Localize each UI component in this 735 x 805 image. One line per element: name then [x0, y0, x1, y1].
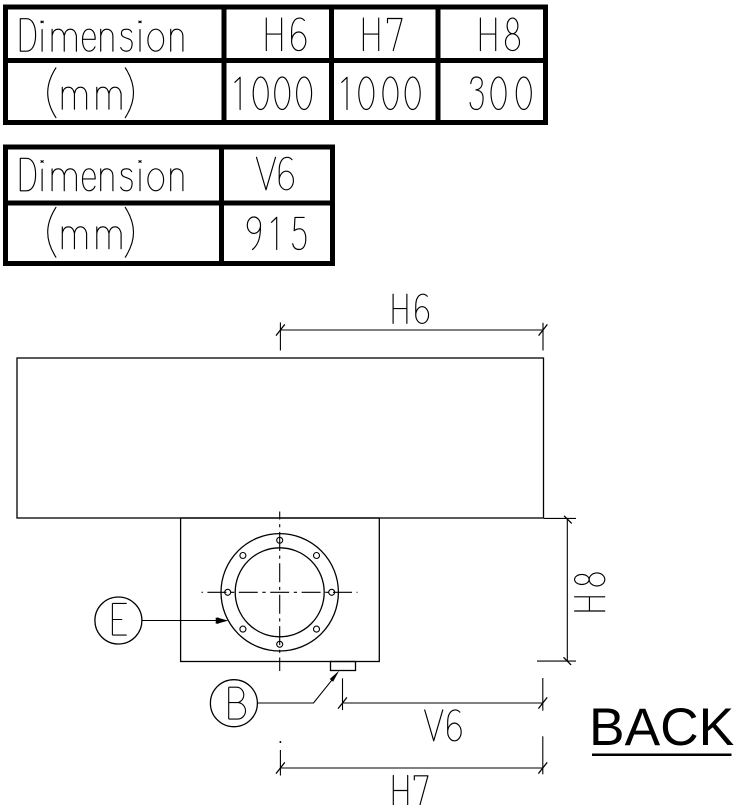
bolt hole 6 (bottom-left)	[240, 626, 246, 632]
flange outer circle	[221, 534, 338, 651]
drain notch box	[331, 662, 356, 671]
dimension V6 tick right	[538, 697, 547, 708]
table T1 column divider 3	[436, 5, 441, 126]
table T2 column divider	[219, 145, 224, 267]
balloon E arrowhead	[217, 618, 228, 624]
table T1 outer border	[6, 7, 546, 123]
bolt hole 7 (left)	[225, 589, 231, 595]
table T1 value 300 for H8	[470, 77, 531, 110]
dimension V6 tick left	[338, 697, 347, 708]
balloon B leader wire	[258, 679, 333, 703]
table T1 column divider 2	[329, 5, 334, 126]
dimension H8 extension line top	[544, 517, 576, 519]
dimension H7 line	[280, 767, 542, 769]
horizontal centerline	[202, 591, 358, 593]
table T1 value 1000 for H6	[235, 77, 312, 110]
dimension H6 extension line left	[279, 322, 281, 350]
dimension H7 label	[393, 775, 428, 805]
dimension H6 line	[280, 329, 543, 331]
bolt hole 5 (bottom)	[277, 641, 283, 647]
table T2 header V6	[257, 157, 294, 190]
dimension V6 extension line right	[542, 678, 544, 711]
dimension H8 line	[566, 518, 568, 661]
bolt hole 8 (top-left)	[240, 553, 246, 559]
bolt hole 3 (right)	[329, 589, 335, 595]
table T1 value 1000 for H7	[342, 77, 420, 110]
table T2 row divider	[3, 201, 335, 206]
table T2 label (mm)	[48, 207, 134, 257]
bolt hole 2 (top-right)	[314, 553, 320, 559]
balloon E letter	[112, 603, 126, 635]
bolt hole 4 (bottom-right)	[314, 626, 320, 632]
svg-text:BACK: BACK	[589, 698, 734, 757]
dimension V6 label	[425, 710, 461, 741]
balloon E leader wire	[142, 620, 217, 622]
table T1 row divider	[3, 58, 548, 63]
dimension H8 extension line bottom	[537, 660, 576, 662]
dimension H7 extension line left	[279, 750, 281, 776]
dimension H8 tick bottom	[564, 657, 572, 665]
table T1 header H6	[266, 18, 306, 51]
dimension H7 extension line start dot	[279, 741, 281, 743]
dimension V6 line	[343, 702, 543, 704]
vertical centerline	[279, 512, 281, 672]
view title underline	[592, 753, 732, 756]
dimension H6 tick left	[276, 324, 285, 335]
dimension H7 extension line right	[542, 736, 544, 774]
balloon B circle	[210, 680, 257, 727]
table T2 outer border	[6, 147, 333, 264]
back panel rectangle	[17, 358, 544, 518]
dimension H6 label	[393, 294, 428, 323]
flange inner circle	[235, 548, 324, 637]
dimension H8 tick top	[564, 516, 572, 524]
dimension H8 label (rotated)	[575, 573, 605, 611]
table T2 value 915	[247, 217, 305, 250]
table T1 label (mm)	[48, 68, 134, 118]
balloon B arrowhead	[330, 671, 340, 682]
table T2 label Dimension	[20, 158, 183, 191]
table T1 column divider 1	[222, 5, 227, 126]
dimension H7 tick left	[276, 762, 285, 773]
balloon E circle	[95, 597, 142, 644]
dimension H6 tick right	[539, 324, 548, 335]
dimension H6 extension line right	[542, 323, 544, 351]
bolt hole 1 (top)	[277, 537, 283, 543]
dimension H7 tick right	[538, 762, 547, 773]
balloon B letter	[229, 687, 246, 719]
dimension V6 extension line left	[342, 678, 344, 710]
balloon E arrowhead back knob	[216, 618, 219, 624]
table T1 label Dimension	[20, 19, 183, 52]
housing box	[181, 518, 380, 662]
table T1 header H8	[480, 18, 519, 51]
table T1 header H7	[363, 18, 402, 51]
